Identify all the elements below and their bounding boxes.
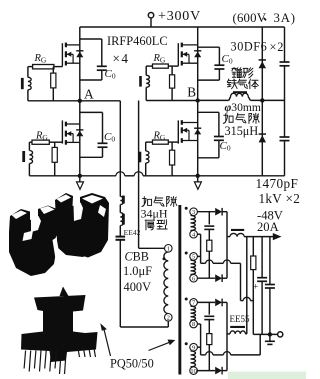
resistor gate-source Q4: [171, 142, 173, 150]
green strip bottom right (scan artifact): [228, 372, 306, 379]
transistor Q2 bottom-left: [61, 120, 63, 143]
resistor gate-source Q1: [52, 67, 54, 74]
svg-text:1470pF: 1470pF: [256, 176, 299, 191]
node junction clamp mid: [260, 98, 264, 102]
wire pin7 to rectifier: [197, 301, 215, 303]
body diode Q3: [194, 50, 201, 52]
node B: [196, 98, 200, 102]
svg-text:A: A: [84, 86, 94, 101]
svg-text:1.0μF: 1.0μF: [123, 264, 152, 278]
wire left bridge leg: [79, 27, 81, 176]
body diode Q1: [76, 50, 83, 52]
capacitor C0 snubber Q2: [80, 111, 103, 113]
svg-text:φ30mm: φ30mm: [225, 101, 261, 114]
inductor resonant 34uH EE42 winding 1: [120, 197, 123, 205]
svg-text:10: 10: [190, 368, 196, 375]
photo PQ50/50 core halves: [55, 193, 109, 258]
capacitor 1470pF upper: [280, 61, 290, 63]
svg-text:6: 6: [192, 275, 195, 282]
wire -48V output line: [244, 236, 274, 238]
svg-text:RG: RG: [34, 53, 47, 64]
svg-text:+300V: +300V: [158, 9, 201, 24]
wire pin6 to rectifier: [197, 277, 215, 279]
transistor Q1 IRFP460LC top-left: [61, 43, 63, 66]
svg-text:B: B: [187, 85, 196, 100]
wire node B down to primary pin1: [138, 101, 140, 249]
wire primary pin2 back to CBB cap: [120, 326, 168, 328]
wire output return line: [253, 333, 277, 335]
svg-text:30DF6: 30DF6: [231, 40, 268, 54]
inductor output choke top: [227, 236, 230, 238]
svg-text:1kV ×2: 1kV ×2: [259, 191, 301, 206]
body diode Q2: [76, 129, 83, 131]
gate drive winding T2c: [146, 65, 152, 67]
svg-text:3A): 3A): [274, 11, 296, 25]
photo PQ50/50 bobbin: [60, 287, 69, 297]
gate drive winding T2d: [146, 141, 153, 143]
svg-text:PQ50/50: PQ50/50: [110, 357, 154, 371]
node A: [78, 99, 82, 103]
wire rectifier bus bottom module: [226, 302, 228, 370]
svg-text:×2: ×2: [270, 40, 285, 54]
gate drive winding T2a: [28, 66, 33, 68]
pin 9: [190, 343, 198, 351]
arrow to transformer core: [149, 342, 170, 350]
capacitor C0 snubber Q3: [198, 46, 220, 48]
wire gate loop bottom Q3 to node B: [146, 100, 198, 102]
bobbin pins: [24, 351, 26, 369]
wire center tap link with jumps: [201, 262, 206, 264]
svg-text:20A: 20A: [257, 220, 279, 234]
ground output: [269, 334, 271, 341]
svg-text:+: +: [253, 283, 258, 293]
diode D6 rectifier: [215, 274, 222, 282]
label inductor air gap 34uH thick: [142, 197, 152, 207]
capacitor C0 snubber Q4: [198, 111, 219, 113]
svg-text:3: 3: [192, 209, 195, 216]
pin 4: [190, 230, 198, 238]
pin 10: [190, 367, 198, 375]
transformer T1 primary winding: [164, 252, 168, 314]
pin 7: [190, 299, 198, 307]
wire center tap pins 8-9: [197, 323, 200, 325]
inductor output choke EE55: [227, 333, 230, 335]
resistor gate-source Q2: [54, 142, 56, 147]
ground right leg: [196, 174, 200, 178]
svg-text:2: 2: [167, 315, 170, 322]
pin 3: [190, 208, 198, 216]
wire pin10 to rectifier: [197, 370, 215, 372]
resistor gate-source Q3: [171, 66, 173, 75]
transistor Q4 bottom-right: [177, 120, 179, 143]
svg-text:315μH: 315μH: [225, 124, 259, 138]
inductor resonant 34uH EE42 winding 2: [120, 213, 123, 226]
svg-text:34μH: 34μH: [141, 206, 168, 220]
inductor 315uH pot core: [229, 97, 231, 101]
output terminal: [278, 332, 283, 337]
resistor bleeder output: [252, 237, 254, 256]
diode D7 rectifier: [215, 299, 222, 307]
transistor Q3 top-right: [177, 43, 179, 66]
capacitor 1470pF lower: [280, 136, 290, 138]
diode D3 rectifier: [215, 208, 222, 216]
wire gate loop bottom Q1 to node A: [28, 100, 80, 102]
capacitor output electrolytic 2: [269, 237, 271, 285]
wire ground rail: [29, 175, 116, 177]
transformer secondary windings 3-4 5-6 7-8 9-10: [191, 216, 196, 231]
svg-text:RG: RG: [153, 53, 166, 64]
svg-text:8: 8: [192, 321, 195, 328]
+300V terminal: [150, 18, 152, 27]
wire pin3 to rectifier: [197, 211, 215, 213]
wire node B to clamp network: [198, 99, 229, 101]
wire center tap pins 4-5: [197, 233, 200, 235]
wire right bridge leg: [197, 27, 199, 176]
capacitor output electrolytic 1: [261, 237, 263, 278]
wire EE55 choke riser to output: [246, 333, 247, 335]
svg-text:9: 9: [192, 344, 195, 351]
capacitor CBB 1uF blocking: [116, 236, 126, 238]
capacitor C0 snubber Q1: [80, 38, 102, 40]
pin 6: [190, 274, 198, 282]
svg-text:IRFP460LC: IRFP460LC: [107, 34, 168, 48]
wire clamp diode column: [261, 27, 263, 176]
transformer T1 core: [178, 205, 181, 375]
gate drive winding T2b: [29, 141, 32, 143]
label pot core ferrite: [232, 68, 242, 78]
snubber RC bottom module: [208, 302, 210, 314]
svg-text:×4: ×4: [113, 51, 130, 66]
transformer T1 primary pin 2: [165, 314, 173, 322]
wire rectifier bus top module: [226, 212, 228, 279]
svg-text:400V: 400V: [124, 280, 152, 294]
snubber RC top module: [208, 212, 210, 225]
svg-text:CBB: CBB: [125, 250, 149, 264]
diode D2 30DF6 lower clamp: [259, 133, 266, 135]
transformer T1 primary pin 1: [165, 245, 173, 253]
svg-text:(600V: (600V: [233, 11, 267, 25]
wire clamp cap column: [284, 27, 286, 62]
wire center tap bottom link with jumps: [201, 354, 206, 356]
body diode Q4: [194, 127, 201, 129]
arrow to bobbin: [104, 329, 111, 357]
svg-text:5: 5: [192, 254, 195, 261]
pin 8: [190, 320, 198, 328]
diode D1 30DF6 upper clamp: [259, 59, 266, 61]
wire top rail +300V bus: [80, 26, 285, 28]
pin 5: [190, 253, 198, 261]
wire node A to resonant inductor: [80, 100, 121, 102]
ground left leg: [78, 174, 82, 178]
diode D10 rectifier: [215, 367, 222, 375]
